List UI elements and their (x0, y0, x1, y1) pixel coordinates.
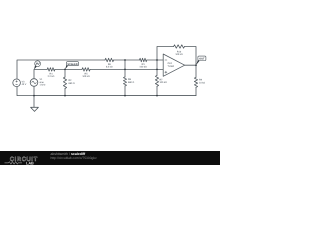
resistor R4 (47, 68, 55, 71)
svg-text:2.2 kΩ: 2.2 kΩ (48, 75, 55, 78)
resistor R6 (105, 58, 114, 61)
svg-text:100 kΩ: 100 kΩ (175, 53, 183, 56)
node x157 top (156, 59, 158, 61)
svg-text:1 kHz: 1 kHz (40, 84, 47, 87)
wire R9 top lead (195, 65, 197, 77)
svg-text:8.2 kΩ: 8.2 kΩ (106, 66, 113, 69)
svg-text:TL082: TL082 (168, 65, 175, 68)
svg-text:680 Ω: 680 Ω (128, 81, 134, 84)
node R8 bottom (124, 95, 126, 97)
resistor R3 (140, 58, 147, 61)
svg-text:OA1: OA1 (168, 62, 173, 65)
node R2 bottom (64, 95, 66, 97)
svg-text:LAB: LAB (26, 161, 34, 165)
op-amp OA1 (163, 54, 185, 76)
svg-text:100 kΩ: 100 kΩ (160, 81, 168, 84)
resistor R5 (82, 68, 90, 71)
wire column junction x125 top-to-main (124, 60, 126, 69)
node x157 main (156, 69, 158, 71)
voltage source V1 (30, 79, 38, 87)
resistor R8 (123, 77, 126, 86)
node scaled junction (64, 69, 66, 71)
resistor R9 (194, 77, 197, 87)
svg-text:SCALED: SCALED (67, 63, 77, 66)
resistor R10 feedback (174, 45, 185, 48)
component labels (22, 50, 206, 86)
wire top rail mid segment (114, 59, 140, 61)
node flag OUT (196, 56, 206, 65)
wire R8 top lead (124, 69, 126, 77)
probe P1 (34, 61, 40, 70)
svg-text:OUT: OUT (199, 58, 205, 61)
wire R7 bottom lead (156, 86, 158, 95)
voltage source V3 (13, 79, 21, 87)
wire R8 bottom lead (124, 86, 126, 96)
svg-text:100 kΩ: 100 kΩ (82, 75, 90, 78)
wire bottom rail (34, 95, 196, 97)
wire V1 bottom (33, 86, 35, 95)
wire R2 top lead (64, 69, 66, 77)
node gnd rail (33, 95, 35, 97)
watermark bar (0, 151, 220, 165)
wire V3 bottom (17, 87, 34, 96)
svg-text:100 kΩ: 100 kΩ (139, 66, 147, 69)
wire top rail left segment (17, 60, 105, 79)
svg-text:680 Ω: 680 Ω (69, 82, 75, 85)
wire R2 bottom lead (64, 89, 66, 96)
svg-text:http://circuitlab.com/c/75393g: http://circuitlab.com/c/75393gkv (51, 156, 98, 160)
svg-text:10 kΩ: 10 kΩ (199, 81, 205, 84)
wire main rail R5 to opamp (90, 68, 163, 70)
ground (31, 96, 39, 112)
wire R7 top lead (156, 69, 158, 75)
svg-text:40 V: 40 V (22, 83, 27, 86)
watermark text (51, 152, 98, 160)
node output (195, 64, 197, 66)
resistor R2 (63, 77, 66, 89)
wire opamp output (185, 64, 196, 66)
junction dots (33, 59, 197, 96)
wire top rail right segment (147, 59, 163, 61)
node x125 main (124, 69, 126, 71)
node R7 bottom (156, 95, 158, 97)
resistor R7 (155, 75, 158, 86)
node flag SCALED (65, 62, 79, 70)
wire feedback riser x157 (157, 47, 174, 61)
circuitlab logo (5, 156, 38, 165)
wire main rail R4 to R5 (55, 68, 82, 70)
wire feedback to output (185, 47, 197, 66)
wire main rail V1 to R4 (34, 69, 47, 78)
wire column x157 top-to-main (156, 60, 158, 69)
node x125 top (124, 59, 126, 61)
svg-text:sine: sine (40, 81, 45, 84)
svg-text:R10: R10 (177, 50, 182, 53)
wire R9 bottom lead (34, 87, 196, 95)
